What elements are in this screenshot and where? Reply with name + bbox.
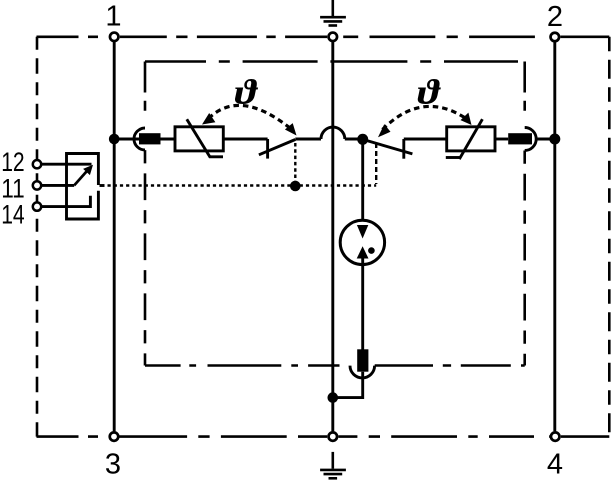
svg-text:ϑ: ϑ bbox=[235, 72, 259, 111]
svg-text:3: 3 bbox=[105, 448, 121, 480]
svg-text:2: 2 bbox=[547, 1, 563, 33]
inner box right edge upper part bbox=[523, 62, 526, 128]
wire terminal 12 bbox=[41, 163, 92, 166]
wire hop over centre earth line bbox=[321, 127, 345, 139]
wire: centre earth line upper bbox=[331, 42, 334, 432]
terminal 2 bbox=[551, 33, 560, 42]
node: junction dot right branch bbox=[549, 134, 560, 145]
varistor diagonal left bbox=[187, 119, 223, 157]
inner box left edge upper part bbox=[144, 62, 147, 128]
svg-text:4: 4 bbox=[547, 449, 563, 480]
dotted signalling line stub from contact box bbox=[100, 184, 105, 187]
node: junction dot centre top branch bbox=[357, 134, 368, 145]
outer box left edge bbox=[36, 37, 39, 437]
terminal earth top bbox=[329, 33, 338, 42]
remote signalling contact box bbox=[67, 154, 99, 220]
inner box bottom edge right part bbox=[375, 364, 525, 367]
terminal circle 14 bbox=[33, 202, 41, 210]
wire: left pivot to hop bbox=[295, 138, 321, 141]
gas discharge tube gas dot bbox=[368, 247, 375, 254]
dotted coupling line left switch bbox=[294, 143, 296, 182]
wire: right vertical line terminal 2 to 4 bbox=[553, 42, 556, 431]
gas discharge tube circle bbox=[340, 220, 384, 264]
wire: right contact to varistor bbox=[404, 138, 447, 141]
gas discharge tube arrow down bbox=[357, 225, 368, 239]
wire: left vertical line terminal 1 to 3 bbox=[113, 42, 116, 431]
contact blade arrowhead bbox=[83, 165, 93, 175]
wire: varistor right to disconnect bbox=[495, 138, 508, 141]
dotted signalling line horizontal bbox=[108, 184, 377, 186]
wire terminal 14 with contact tick bbox=[41, 196, 90, 207]
varistor diagonal right bbox=[446, 119, 483, 159]
wire: centre junction down to gas discharge tube bbox=[361, 139, 364, 226]
thermal disconnect element bottom (black block) bbox=[357, 349, 368, 371]
dotted coupling line right switch bbox=[375, 143, 377, 184]
wire: hop to centre junction bbox=[345, 138, 363, 141]
terminal earth bottom bbox=[329, 432, 338, 441]
contact blade 11 to 12 bbox=[74, 170, 88, 186]
svg-text:14: 14 bbox=[1, 199, 25, 229]
thermal disconnect arc bottom (inner border detour) bbox=[350, 366, 375, 378]
outer device boundary dash-dot box : top edge bbox=[37, 35, 109, 38]
terminal 4 bbox=[551, 432, 560, 441]
node: junction dot earth line bottom bbox=[328, 392, 339, 403]
inner box right edge lower part bbox=[523, 151, 526, 366]
switch right blade bbox=[363, 139, 413, 154]
wire: varistor left to switch contact bbox=[223, 138, 267, 141]
switch right fixed contact tick bbox=[402, 139, 405, 159]
terminal 1 bbox=[110, 33, 119, 42]
gas discharge tube arrow up bbox=[357, 246, 369, 258]
node: junction dot left branch bbox=[109, 134, 120, 145]
svg-text:1: 1 bbox=[105, 1, 121, 33]
terminal circle 11 bbox=[33, 181, 41, 189]
switch left blade bbox=[259, 140, 295, 155]
ground top symbol bbox=[320, 0, 346, 26]
wire terminal 11 bbox=[41, 184, 74, 187]
thermal coupling arc right (dashed with arrows) bbox=[383, 106, 468, 129]
varistor box right bbox=[447, 127, 495, 151]
node: signalling junction dot bbox=[290, 181, 301, 192]
wire: left branch horizontal from junction to varistor bbox=[114, 138, 175, 141]
thermal coupling arc left (dashed with arrows) bbox=[209, 105, 291, 128]
inner protection-circuit dash-dot box : top edge bbox=[145, 60, 525, 63]
svg-text:ϑ: ϑ bbox=[417, 72, 441, 111]
wire: disconnect down and left to earth line bbox=[333, 372, 363, 398]
svg-text:12: 12 bbox=[1, 147, 25, 177]
outer box bottom edge bbox=[37, 435, 109, 438]
thermal disconnect element left (black block) bbox=[139, 133, 161, 144]
inner box left edge lower part bbox=[144, 150, 147, 365]
thermal disconnect element right (black block) bbox=[508, 133, 532, 144]
thermal disconnect arc left (inner border detour) bbox=[134, 128, 145, 150]
varistor box left bbox=[175, 127, 223, 151]
thermal disconnect arc right (inner border detour) bbox=[525, 128, 537, 151]
wire: arc to right junction bbox=[536, 138, 555, 141]
switch left fixed contact tick bbox=[266, 139, 269, 159]
inner box bottom edge left part bbox=[145, 364, 340, 367]
wire: gas discharge tube down to disconnect bbox=[361, 258, 364, 350]
terminal circle 12 bbox=[33, 160, 41, 168]
terminal 3 bbox=[110, 432, 119, 441]
outer box right edge bbox=[608, 37, 611, 437]
ground bottom symbol bbox=[320, 452, 346, 478]
